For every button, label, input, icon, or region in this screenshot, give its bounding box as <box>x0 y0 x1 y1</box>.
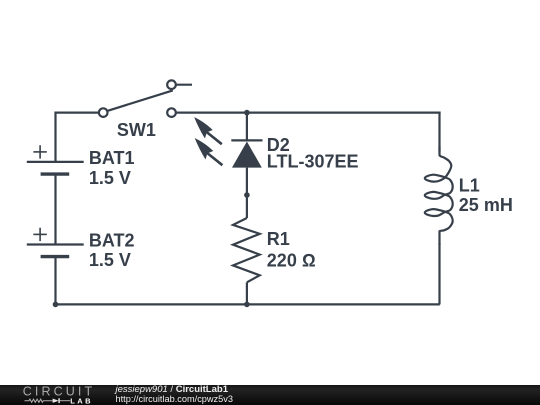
wire LED to node A <box>246 168 248 195</box>
footer attribution text <box>116 385 233 405</box>
switch open-throw terminal <box>167 80 176 89</box>
LED D2 <box>194 117 358 172</box>
CircuitLab logo <box>0 383 110 405</box>
footer bar <box>0 385 540 405</box>
node bottom junction dot <box>244 302 250 308</box>
wire bottom rail <box>56 303 440 305</box>
battery BAT2 <box>27 228 135 270</box>
inductor L1 <box>425 146 513 245</box>
wire below BAT2 to bottom rail <box>54 257 56 305</box>
node top junction dot <box>244 110 250 116</box>
wire top-left horizontal to switch <box>56 111 99 113</box>
svg-text:SW1: SW1 <box>117 120 156 140</box>
switch SW1 <box>99 80 192 139</box>
node bottom-left junction dot <box>53 302 59 308</box>
wire LED branch top <box>246 113 248 141</box>
svg-text:BAT2: BAT2 <box>89 230 135 250</box>
battery BAT1 <box>27 145 135 188</box>
logo squiggle: wire + resistor zigzag <box>25 399 53 402</box>
svg-text:1.5 V: 1.5 V <box>89 250 131 270</box>
svg-text:25 mH: 25 mH <box>459 195 513 215</box>
wire right rail lower <box>438 243 440 304</box>
svg-text:LAB: LAB <box>70 396 93 405</box>
logo diode symbol <box>53 399 59 403</box>
switch pole terminal <box>99 108 108 117</box>
switch throw stub wire <box>176 84 192 86</box>
svg-text:220 Ω: 220 Ω <box>267 251 316 271</box>
wire between BAT1 and BAT2 <box>54 174 56 244</box>
wire right rail upper <box>438 112 440 153</box>
svg-text:BAT1: BAT1 <box>89 148 135 168</box>
svg-text:L1: L1 <box>459 176 480 196</box>
switch lever <box>107 90 173 111</box>
LED arrow lower <box>195 138 223 165</box>
LED arrow upper <box>194 117 222 144</box>
svg-text:R1: R1 <box>267 229 290 249</box>
switch closed-throw terminal <box>167 108 176 117</box>
svg-text:1.5 V: 1.5 V <box>89 168 131 188</box>
node A junction dot (LED-resistor) <box>244 192 250 198</box>
svg-text:LTL-307EE: LTL-307EE <box>267 152 359 172</box>
resistor R1 <box>233 218 316 282</box>
wire top rail from switch to right rail <box>176 111 441 113</box>
wire node A to resistor <box>246 195 248 218</box>
wire resistor to bottom rail <box>246 282 248 304</box>
wire left rail upper (corner to BAT1) <box>54 112 56 162</box>
